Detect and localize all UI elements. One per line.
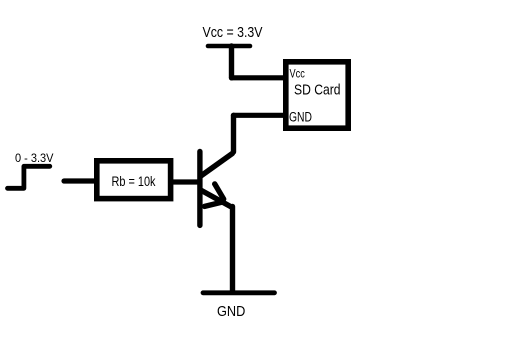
SD card U1 box [286, 62, 348, 128]
wire SD card GND pin (horizontal) [234, 113, 286, 118]
svg-text:0 - 3.3V: 0 - 3.3V [15, 151, 54, 165]
svg-text:Rb = 10k: Rb = 10k [112, 174, 156, 189]
wire input to resistor [64, 178, 96, 183]
svg-text:Vcc = 3.3V: Vcc = 3.3V [203, 24, 263, 41]
transistor Q1 collector lead (diagonal) [201, 154, 233, 177]
wire emitter to ground (vertical) [230, 207, 235, 292]
transistor Q1 emitter arrow barb upper [215, 184, 224, 199]
ground bar [203, 290, 275, 295]
transistor Q1 base bar [197, 152, 202, 226]
wire resistor to base [172, 179, 198, 184]
input step signal waveform [8, 166, 50, 188]
svg-text:Vcc: Vcc [290, 69, 305, 81]
wire SD card GND to collector (vertical) [231, 115, 236, 152]
transistor Q1 emitter arrow barb lower [205, 202, 224, 207]
svg-text:GND: GND [289, 110, 312, 125]
power rail Vcc bar [208, 44, 250, 49]
wire Vcc rail to SD card Vcc (horizontal) [232, 75, 286, 80]
wire Vcc rail to SD card Vcc (vertical) [229, 46, 234, 78]
svg-text:GND: GND [217, 304, 245, 320]
svg-text:SD Card: SD Card [294, 81, 341, 98]
transistor Q1 emitter lead (diagonal) [202, 191, 231, 207]
resistor Rb box [97, 161, 171, 199]
